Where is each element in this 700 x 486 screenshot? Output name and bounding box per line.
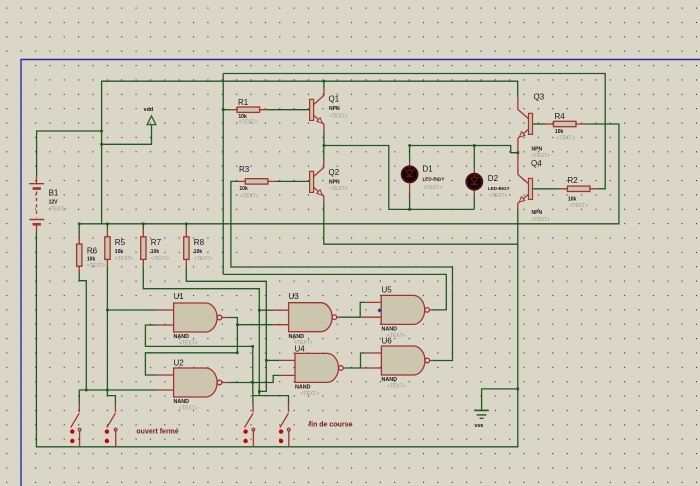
wire D1 top stub green	[409, 146, 411, 162]
svg-text:<TEXT>: <TEXT>	[532, 217, 551, 223]
svg-text:R5: R5	[115, 238, 126, 247]
junction dots	[222, 108, 225, 111]
svg-text:Q3: Q3	[534, 93, 545, 102]
transistor Q2	[310, 161, 324, 205]
svg-text:Q4: Q4	[531, 159, 542, 168]
op-amp U2 NAND gate	[158, 368, 229, 397]
svg-text:NAND: NAND	[382, 327, 398, 333]
svg-text:NAND: NAND	[174, 399, 190, 405]
svg-text:R4: R4	[555, 112, 566, 121]
wire switch header 2	[253, 396, 289, 405]
wire Q1 collector green	[323, 81, 325, 88]
svg-text:D2: D2	[488, 174, 499, 183]
op-amp U4 NAND gate	[279, 353, 345, 382]
svg-text:<TEXT>: <TEXT>	[179, 341, 198, 347]
wire Q3 base to R4	[533, 123, 546, 125]
wire rail stub R5	[106, 224, 108, 229]
resistor R1	[231, 107, 268, 112]
wire vdd arrow to V-left	[102, 125, 152, 145]
power vdd arrow symbol	[147, 116, 156, 125]
svg-text:NPN: NPN	[532, 210, 543, 216]
svg-text:ouvert fermé: ouvert fermé	[136, 428, 179, 435]
svg-text:NAND: NAND	[174, 334, 190, 340]
wire U4 output to U6 inputs jog	[346, 353, 366, 368]
wire D2 bottom stub green	[473, 196, 475, 209]
svg-text:<TEXT>: <TEXT>	[179, 406, 198, 412]
wire U3 output to U5 inputs jog	[339, 302, 366, 317]
battery B1	[29, 176, 44, 232]
svg-text:R7: R7	[151, 238, 162, 247]
svg-text:R6: R6	[87, 247, 98, 256]
resistor R8	[184, 229, 189, 267]
wire S1: junction right, down at 388.8, LED bottom rail	[324, 146, 474, 210]
op-amp U1 NAND gate	[158, 303, 229, 332]
wire R1 to Q1 base	[268, 109, 310, 111]
ground symbol vss	[474, 410, 489, 418]
svg-text:<TEXT>: <TEXT>	[557, 135, 576, 141]
svg-text:NPN: NPN	[329, 106, 340, 112]
svg-text:B1: B1	[49, 188, 59, 197]
switch SW1 (ouvert)	[70, 405, 81, 447]
svg-text:<TEXT>: <TEXT>	[570, 203, 589, 209]
node marker U5 origin blue diamond	[377, 308, 381, 312]
wire D1 bottom stub green	[409, 196, 411, 209]
svg-text:D1: D1	[423, 165, 434, 174]
wire U1 output branch to U3 input B	[237, 324, 272, 326]
LED D2	[467, 168, 483, 196]
svg-text:NPN: NPN	[532, 146, 543, 152]
svg-text:10k: 10k	[151, 249, 160, 255]
svg-text:U3: U3	[289, 292, 300, 301]
wire R6 bottom down to switch header	[79, 272, 86, 391]
wire V2 to U3 input A	[259, 309, 272, 311]
svg-text:<TEXT>: <TEXT>	[239, 120, 258, 126]
op-amp U3 NAND gate	[273, 303, 341, 332]
svg-text:<TEXT>: <TEXT>	[294, 340, 313, 346]
svg-text:LED-BIGY: LED-BIGY	[488, 186, 510, 191]
wire U2 output node up to feedback and down to header2	[252, 346, 254, 395]
svg-text:<TEXT>: <TEXT>	[387, 384, 406, 390]
wire rail stub R6	[78, 224, 80, 237]
svg-text:12V: 12V	[49, 200, 59, 206]
wire R5 node to U1 input A	[107, 309, 157, 311]
resistor R4	[546, 121, 585, 126]
svg-text:<TEXT>: <TEXT>	[87, 263, 106, 269]
svg-text:10k: 10k	[555, 129, 564, 135]
wire rail stub R7	[142, 224, 144, 229]
wire vdd rail top: V-left up, across to Q3 collector	[102, 81, 518, 224]
svg-text:<TEXT>: <TEXT>	[489, 193, 508, 199]
svg-text:NAND: NAND	[382, 377, 398, 383]
wire Q4 emitter down to bottom rail and to battery	[36, 209, 517, 446]
wire D2 top stub green	[473, 146, 475, 169]
wire Q2 emitter line right to Q4 emitter line	[324, 204, 518, 244]
svg-text:U2: U2	[174, 358, 185, 367]
svg-text:<TEXT>: <TEXT>	[194, 256, 213, 262]
wire R8 bottom right and down V3 with jog	[186, 267, 266, 392]
wire R7 bottom right and down V2	[143, 267, 259, 396]
svg-text:Q1: Q1	[329, 95, 340, 104]
svg-text:R2: R2	[568, 176, 579, 185]
op-amp U6 NAND gate	[361, 346, 433, 375]
svg-text:10k: 10k	[87, 257, 96, 263]
wire R3 to Q2 base	[276, 180, 310, 182]
wire Q1 emitter to Q2 collector junction	[323, 131, 325, 146]
resistor R7	[141, 229, 146, 267]
wire V3 to U4 input A	[266, 359, 279, 361]
svg-text:NAND: NAND	[289, 334, 305, 340]
svg-text:U1: U1	[174, 292, 185, 301]
svg-text:R1: R1	[238, 98, 249, 107]
wire top H_A: R1 node across top to R2 right	[223, 74, 605, 189]
wire Q2 collector green	[323, 146, 325, 161]
svg-text:<TEXT>: <TEXT>	[48, 206, 67, 212]
wire F2 feedback: U5 output up and left to V_A	[223, 274, 446, 310]
transistor Q3 (mirrored)	[518, 97, 533, 138]
svg-text:fin de course: fin de course	[309, 421, 353, 428]
svg-text:Q2: Q2	[329, 168, 340, 177]
svg-text:<TEXT>: <TEXT>	[240, 193, 259, 199]
svg-text:<TEXT>: <TEXT>	[329, 186, 348, 192]
resistor R3	[237, 179, 276, 184]
svg-text:<TEXT>: <TEXT>	[151, 256, 170, 262]
svg-text:NPN: NPN	[329, 179, 340, 185]
svg-text:vdd: vdd	[144, 107, 154, 113]
svg-text:vss: vss	[474, 423, 483, 429]
wire R5 bottom down with jog to switch SW2	[107, 267, 115, 405]
svg-text:<TEXT>: <TEXT>	[387, 333, 406, 339]
svg-text:<TEXT>: <TEXT>	[115, 256, 134, 262]
svg-text:LED-BIGY: LED-BIGY	[423, 176, 445, 181]
wire switch header 1 and U2 input B feed	[79, 390, 157, 405]
switch SW2 (ferme)	[105, 405, 117, 447]
transistor Q4 (mirrored)	[518, 175, 533, 210]
wire Q3 emitter to Q4 collector	[517, 138, 519, 174]
svg-text:<TEXT>: <TEXT>	[532, 153, 551, 159]
resistor R6	[77, 237, 82, 272]
svg-text:10k: 10k	[115, 249, 124, 255]
wire Q4 base to R2	[533, 188, 559, 190]
wire resistor rail y224 from R6 to R4 right	[79, 124, 619, 224]
resistor R2	[559, 186, 598, 191]
svg-text:U5: U5	[382, 285, 393, 294]
wire U2 output to U4 input B	[228, 375, 279, 382]
svg-text:<TEXT>: <TEXT>	[301, 391, 320, 397]
LED D1	[402, 161, 418, 196]
wire rail stub R8	[185, 224, 187, 229]
wire F1 feedback: U6 output up and left to R3 left	[231, 181, 453, 360]
svg-text:10k: 10k	[239, 186, 248, 192]
svg-text:R3: R3	[239, 165, 250, 174]
transistor Q1	[310, 88, 324, 131]
switch SW3 (fin de course 1)	[243, 405, 254, 447]
wire feedback U2out to U1 input B	[145, 325, 252, 346]
wire ground branch	[482, 389, 518, 411]
wire U1 output down and to U2 input A	[145, 318, 237, 376]
op-amp U5 NAND gate	[360, 295, 431, 324]
resistor R5	[105, 229, 110, 267]
wire R1 left stub join	[223, 109, 231, 111]
svg-text:<TEXT>: <TEXT>	[329, 113, 348, 119]
wire S2: LED top rail to Q3 emitter line	[410, 146, 518, 153]
svg-text:R8: R8	[194, 238, 205, 247]
switch SW4 (fin de course 2)	[279, 405, 290, 447]
wire battery top to V-left	[37, 131, 102, 176]
svg-text:NAND: NAND	[295, 385, 311, 391]
svg-text:<TEXT>: <TEXT>	[424, 185, 443, 191]
wire V_A: R1 left vertical down to feedback F2	[222, 74, 224, 275]
svg-text:10k: 10k	[194, 249, 203, 255]
svg-text:10k: 10k	[568, 196, 577, 202]
